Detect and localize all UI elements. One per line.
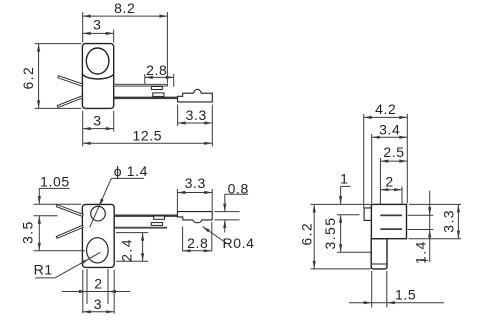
- view2 hole circle: [91, 206, 106, 221]
- svg-text:3.3: 3.3: [186, 107, 207, 123]
- dim 3.3 view2: [177, 175, 212, 194]
- svg-text:2: 2: [385, 174, 393, 190]
- view1 dome wave curve: [82, 74, 113, 79]
- dim 3.55 extension lines: [337, 215, 371, 252]
- dim 3.5: [20, 216, 41, 251]
- dim 4.2 extension lines: [364, 114, 408, 208]
- view1 top right lead: [114, 84, 168, 86]
- dim 3.3 view3 extension lines: [409, 204, 462, 238]
- dim 2 bottom extension lines: [87, 269, 108, 304]
- view3 leg lead: [371, 239, 387, 269]
- dim 6.2 extension lines: [35, 44, 82, 109]
- dim 3 top extension line: [113, 30, 115, 43]
- view2 body housing: [82, 204, 114, 267]
- svg-text:1: 1: [340, 171, 348, 187]
- svg-text:6.2: 6.2: [20, 66, 36, 90]
- dim 3.3 extension lines: [178, 105, 213, 147]
- dim 2.5 extension line: [379, 158, 381, 204]
- dim 6.2 view3 extension lines: [311, 204, 371, 269]
- svg-text:6.2: 6.2: [298, 222, 314, 246]
- svg-text:1.05: 1.05: [40, 174, 70, 190]
- dim 3.3 view2 extension lines: [177, 189, 212, 211]
- dim 0.8 extension lines: [215, 212, 240, 220]
- label R1: [34, 252, 101, 278]
- dim 0.8 label: [223, 181, 249, 233]
- svg-text:2.8: 2.8: [146, 62, 167, 78]
- dim 12.5: [83, 127, 213, 145]
- svg-text:1.5: 1.5: [395, 287, 416, 303]
- dim 3 top: [83, 16, 114, 35]
- dim 3 bottom view2 extension lines: [83, 270, 114, 314]
- dim 3.4: [372, 122, 408, 139]
- dim 1 label: [339, 171, 351, 204]
- svg-text:3.4: 3.4: [379, 122, 400, 138]
- dim 1.05 extension lines: [34, 204, 82, 216]
- dim 2.5: [380, 144, 407, 163]
- svg-text:8.2: 8.2: [114, 0, 135, 16]
- dim 2 view3: [380, 174, 402, 192]
- dim 1.5: [349, 287, 444, 305]
- svg-text:1.4: 1.4: [413, 240, 429, 264]
- svg-text:3.55: 3.55: [322, 217, 338, 250]
- view2 lower right lead bar: [114, 227, 167, 229]
- view3 leg cap line: [371, 263, 387, 265]
- dim 3.3: [178, 107, 213, 125]
- view2 dome ellipse: [87, 238, 109, 263]
- dim 2.8 view2 extension lines: [183, 222, 212, 252]
- dim 1.4 extension lines: [408, 215, 434, 229]
- view2 top right lead bar: [114, 215, 177, 217]
- view2 crimp block 1: [154, 216, 165, 219]
- view3 lead1 bar: [380, 215, 402, 217]
- dim 3 bottom extension lines: [83, 111, 114, 147]
- label phi 1.4: [90, 163, 148, 228]
- view1 lens hole ellipse: [86, 48, 109, 74]
- svg-text:12.5: 12.5: [132, 127, 162, 143]
- dim 3.5 extension line: [34, 250, 86, 252]
- dim 8.2 extension lines: [83, 12, 168, 84]
- view1 body housing: [82, 44, 113, 109]
- svg-text:2.5: 2.5: [383, 144, 404, 160]
- svg-text:3: 3: [93, 16, 101, 32]
- dim 2 bottom: [62, 276, 130, 294]
- dim 6.2: [20, 44, 40, 109]
- dim 1.4: [413, 191, 432, 264]
- view1 crimp block 2: [153, 93, 164, 97]
- view1 lower-left bent lead: [57, 96, 83, 108]
- view3 lead2 bar: [380, 228, 402, 230]
- dim 3.55: [322, 215, 342, 252]
- svg-text:R0.4: R0.4: [223, 235, 255, 251]
- svg-text:3.3: 3.3: [440, 209, 456, 233]
- dim 2.8 extension lines: [145, 74, 174, 87]
- svg-text:ϕ 1.4: ϕ 1.4: [114, 163, 148, 179]
- label R0.4: [202, 225, 255, 251]
- svg-text:R1: R1: [34, 262, 53, 278]
- dim 2.8: [145, 62, 174, 79]
- dim 2.4: [119, 233, 145, 262]
- dim 1.5 extension lines: [372, 271, 387, 308]
- view3 side tab: [364, 208, 371, 221]
- view2 crimp block 2: [151, 223, 162, 226]
- dim 2.4 extension lines: [116, 233, 148, 262]
- view2 terminal pad: [177, 212, 212, 223]
- dim 3 bottom view2: [83, 296, 114, 313]
- dim 4.2: [364, 101, 408, 119]
- view1 terminal pad: [178, 89, 213, 102]
- svg-text:3.3: 3.3: [185, 175, 206, 191]
- dim 3.3 view3: [440, 204, 460, 238]
- svg-text:3: 3: [94, 296, 102, 312]
- view1 upper-left bent lead: [58, 76, 83, 86]
- view3 body: [371, 204, 406, 238]
- svg-text:3.5: 3.5: [20, 220, 36, 244]
- svg-text:2.4: 2.4: [119, 238, 135, 262]
- dim 1.05 label: [38, 174, 70, 205]
- view1 crimp block 1: [151, 87, 162, 90]
- view1 bottom right lead bar: [114, 97, 178, 100]
- svg-text:4.2: 4.2: [375, 101, 396, 117]
- dim 2.8 view2: [183, 235, 212, 252]
- svg-text:3: 3: [93, 113, 101, 129]
- svg-text:2.8: 2.8: [187, 235, 208, 251]
- dim 3.4 extension line: [371, 134, 373, 203]
- view2 lower-left bent lead: [56, 225, 83, 238]
- view2 upper-left bent lead: [56, 205, 83, 217]
- dim 3 bottom: [83, 113, 114, 131]
- dim 6.2 view3: [298, 204, 316, 269]
- dim 8.2: [83, 0, 168, 18]
- dim 2 extension line: [401, 187, 403, 205]
- dim 1.4 underline tick: [420, 259, 428, 261]
- svg-text:2: 2: [94, 276, 102, 292]
